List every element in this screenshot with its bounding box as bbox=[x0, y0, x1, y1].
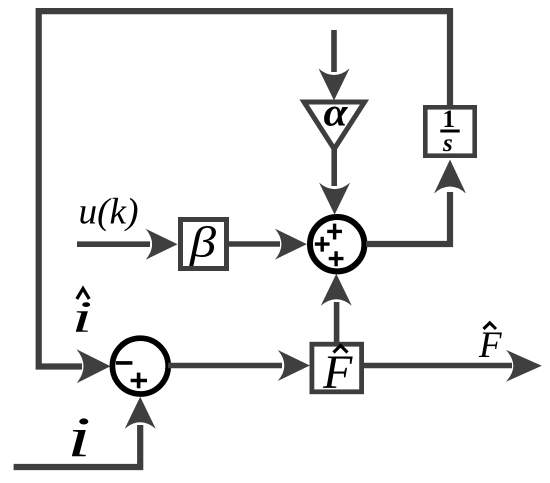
arrowhead: into S1 bottom bbox=[321, 274, 352, 306]
wire: i input (bottom left) bbox=[14, 425, 141, 467]
arrowhead: into 1/s bottom bbox=[434, 160, 466, 194]
svg-text:β: β bbox=[189, 220, 217, 267]
label i-hat (estimated current) bbox=[72, 289, 93, 342]
block beta (gain box) bbox=[181, 220, 227, 269]
sign minus at S2 bbox=[116, 361, 132, 365]
svg-text:i: i bbox=[72, 293, 93, 342]
gain alpha (triangle block) bbox=[304, 90, 365, 150]
arrowhead: into S1 left bbox=[275, 229, 307, 260]
block 1/s (integrator box) bbox=[425, 106, 474, 157]
arrowhead: into S1 top bbox=[319, 183, 350, 215]
svg-text:i: i bbox=[67, 407, 91, 470]
wire: beta to S1 bbox=[228, 241, 280, 247]
arrowhead: feedback into summing junction S2 bbox=[77, 349, 111, 383]
wire: S2 output to F-hat block bbox=[168, 363, 282, 369]
arrowhead: into gain alpha triangle bbox=[319, 69, 350, 101]
wire: feedback loop (left vertical, top rail, right vertical) bbox=[39, 11, 450, 366]
svg-text:1: 1 bbox=[443, 106, 456, 133]
svg-text:s: s bbox=[442, 130, 453, 157]
wire: alpha to S1 bbox=[331, 147, 337, 186]
sign plus at S1 (upper) bbox=[327, 224, 342, 240]
svg-text:u(k): u(k) bbox=[79, 192, 139, 233]
wire: S1 output to integrator 1/s bbox=[366, 192, 450, 244]
wire: u(k) to beta block bbox=[77, 241, 150, 247]
svg-text:F: F bbox=[322, 346, 353, 399]
sign plus at S1 (lower) bbox=[329, 251, 344, 266]
wire: F-hat block to summer S1 (vertical) bbox=[334, 302, 340, 344]
svg-text:α: α bbox=[324, 90, 349, 135]
block F-hat (estimator box) bbox=[312, 344, 362, 399]
arrowhead: into beta block bbox=[146, 229, 178, 260]
sign plus at S1 (left) bbox=[315, 237, 330, 252]
label F-hat (output) bbox=[478, 323, 502, 366]
arrowhead: i into S2 bottom bbox=[125, 397, 156, 429]
sign plus at S2 bbox=[131, 373, 147, 389]
arrowhead: into F-hat block bbox=[278, 350, 310, 381]
wire: F-hat output bbox=[362, 363, 512, 369]
summing junction S1 (circle) bbox=[310, 217, 364, 271]
wire: alpha input from top bbox=[331, 30, 337, 72]
svg-text:F: F bbox=[478, 325, 502, 366]
arrowhead: F-hat output arrow bbox=[506, 350, 542, 382]
summing junction S2 (circle) bbox=[112, 338, 168, 394]
